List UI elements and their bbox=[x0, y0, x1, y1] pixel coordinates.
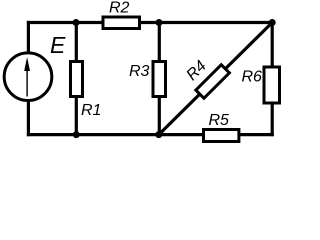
svg-text:E: E bbox=[50, 32, 66, 58]
junction dot top R1 bbox=[73, 19, 80, 26]
junction dot bottom R3 bbox=[155, 131, 162, 138]
source arrow head bbox=[24, 57, 30, 71]
junction dot top R3 bbox=[156, 19, 163, 26]
resistor R3 bbox=[153, 62, 166, 97]
resistor R2 bbox=[103, 17, 140, 29]
wire: top horizontal bbox=[27, 21, 274, 24]
wire: left column top (source to top wire) bbox=[27, 21, 30, 53]
resistor R6 bbox=[264, 67, 280, 103]
resistor R4 bbox=[196, 65, 230, 99]
wire: left column bottom (source to bottom wire) bbox=[27, 100, 30, 136]
resistor R1 bbox=[71, 62, 83, 97]
source E circle bbox=[4, 53, 52, 101]
svg-text:R6: R6 bbox=[242, 69, 263, 86]
wire: R1 column top bbox=[75, 21, 78, 62]
wire: R6 column bottom bbox=[271, 103, 274, 136]
wire: R3 column bottom bbox=[158, 96, 161, 136]
wire: R1 column bottom bbox=[75, 96, 78, 136]
svg-text:R5: R5 bbox=[209, 112, 230, 129]
junction dot top-right node bbox=[269, 19, 276, 26]
resistor R5 bbox=[204, 130, 239, 142]
source arrow shaft bbox=[26, 68, 28, 97]
svg-text:R3: R3 bbox=[129, 63, 150, 80]
wire: R3 column top bbox=[158, 21, 161, 62]
wire: bottom horizontal bbox=[27, 133, 274, 136]
wire: diagonal R4 bbox=[159, 23, 272, 135]
junction dot bottom R1 bbox=[73, 131, 80, 138]
svg-text:R2: R2 bbox=[109, 0, 130, 17]
svg-text:R1: R1 bbox=[81, 102, 101, 119]
wire: R6 column top bbox=[271, 21, 274, 67]
